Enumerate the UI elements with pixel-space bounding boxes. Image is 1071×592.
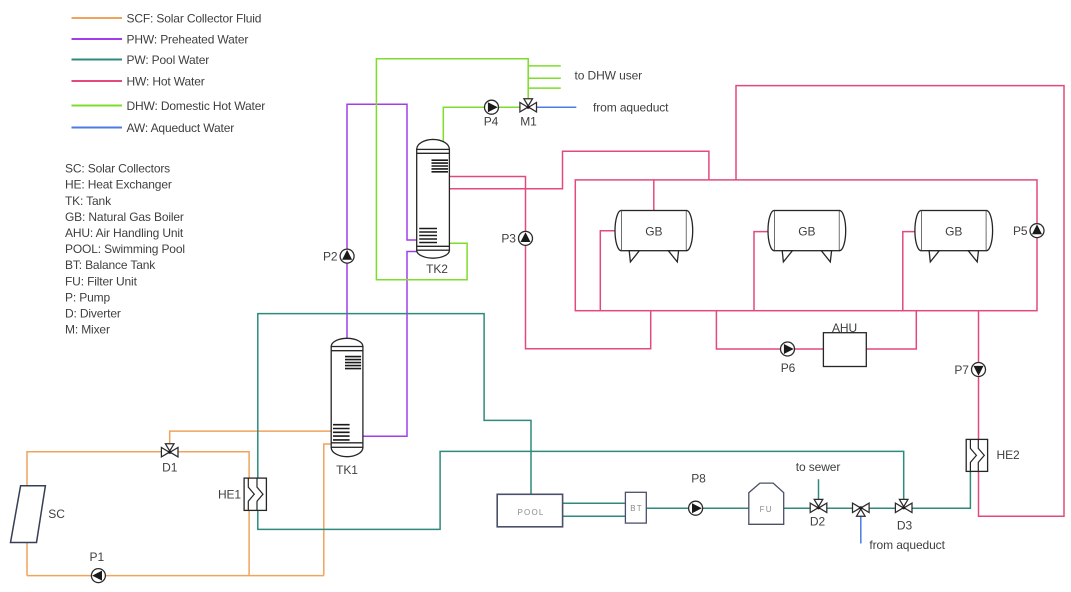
wire HW: GB3 left port drop (903, 232, 915, 311)
svg-text:SC: Solar Collectors: SC: Solar Collectors (65, 162, 170, 176)
svg-text:HE1: HE1 (218, 488, 241, 502)
svg-text:P7: P7 (954, 363, 969, 377)
pump P1 (90, 550, 106, 582)
diverter D3 (895, 499, 912, 532)
legend PHW line (72, 38, 123, 40)
svg-text:D1: D1 (162, 461, 178, 475)
svg-text:POOL: Swimming Pool: POOL: Swimming Pool (65, 242, 185, 256)
wire DHW: user stub 3 (528, 87, 561, 89)
svg-text:P8: P8 (691, 471, 706, 485)
check valve from aqueduct (853, 503, 870, 516)
wire HW: TK2 lower port up over to boiler supply header (449, 151, 709, 189)
wire PW: HE1 top up across down into POOL top (258, 314, 531, 495)
svg-text:AHU: AHU (832, 321, 857, 335)
svg-text:POOL: POOL (517, 508, 544, 517)
legend AW line (72, 127, 123, 129)
svg-text:P1: P1 (90, 550, 105, 564)
svg-text:TK: Tank: TK: Tank (65, 194, 112, 208)
svg-text:GB: GB (945, 224, 962, 238)
wire SCF: SC loop up through D1 to HE1 top (27, 452, 249, 576)
wire DHW: TK2 top port up and right to M1 through P4 (443, 107, 528, 142)
svg-text:SCF: Solar Collector Fluid: SCF: Solar Collector Fluid (127, 11, 262, 25)
pump P8 (689, 471, 707, 515)
wire PW: HE1 bottom right up along return run to D3 (258, 451, 904, 529)
svg-text:D3: D3 (897, 518, 913, 532)
legend SCF line (72, 17, 123, 19)
svg-text:GB: GB (645, 224, 662, 238)
svg-text:TK1: TK1 (336, 463, 358, 477)
wire DHW: user stub 1 (528, 65, 561, 67)
wire SCF: D1 top branch to TK1 coil in (170, 431, 332, 452)
svg-text:D2: D2 (810, 514, 826, 528)
wire AW: aqueduct stub into check valve bottom (860, 508, 862, 544)
svg-text:P4: P4 (484, 115, 499, 129)
diverter D2 (810, 499, 827, 528)
svg-text:P: Pump: P: Pump (65, 290, 110, 304)
wire SCF: HE1 bottom down to bottom run (248, 510, 250, 575)
pump P6 (781, 342, 796, 375)
boiler GB1 (615, 211, 693, 262)
balance tank BT (625, 492, 646, 523)
legend PW line (72, 59, 123, 61)
svg-text:from aqueduct: from aqueduct (869, 538, 945, 552)
svg-text:P6: P6 (781, 361, 796, 375)
mixer M1 (520, 99, 537, 129)
legend HW line (72, 80, 123, 82)
svg-text:AHU: Air Handling Unit: AHU: Air Handling Unit (65, 226, 184, 240)
tank TK1 (331, 338, 363, 476)
svg-text:P5: P5 (1013, 224, 1028, 238)
abbreviation list (65, 162, 185, 337)
svg-text:BT: Balance Tank: BT: Balance Tank (65, 258, 156, 272)
svg-text:GB: GB (798, 224, 815, 238)
svg-text:to DHW user: to DHW user (575, 68, 643, 82)
filter unit FU (749, 483, 784, 524)
svg-text:SC: SC (48, 507, 65, 521)
pump P4 (484, 100, 499, 129)
wire PW: POOL to BT lower (563, 515, 626, 517)
wire HW: TK2 upper port through P3 to boiler return bus (449, 177, 650, 349)
svg-text:AW: Aqueduct Water: AW: Aqueduct Water (127, 121, 235, 135)
heat exchanger HE2 (966, 439, 1020, 471)
svg-text:TK2: TK2 (426, 262, 448, 276)
air handling unit AHU (823, 321, 866, 367)
wire PW: BT through P8 FU D2 D3 to HE2 riser (646, 471, 970, 508)
svg-text:from aqueduct: from aqueduct (593, 100, 669, 114)
wire PHW: TK2 coil out down to TK1 right port (363, 252, 417, 437)
tank TK2 (417, 139, 450, 276)
svg-text:P2: P2 (323, 249, 338, 263)
wire SCF: bottom run through P1 (27, 575, 324, 577)
swimming pool POOL (497, 494, 562, 527)
wire HW: AHU branch through P6 (716, 311, 916, 349)
svg-text:GB: Natural Gas Boiler: GB: Natural Gas Boiler (65, 210, 184, 224)
wire HW: GB1 top feed (653, 180, 655, 211)
solar collector SC (11, 486, 66, 543)
svg-text:P3: P3 (501, 232, 516, 246)
svg-text:PW: Pool Water: PW: Pool Water (127, 53, 210, 67)
svg-text:HE2: HE2 (997, 448, 1020, 462)
boiler GB3 (915, 211, 993, 262)
wire SCF: TK1 coil out to bottom run (324, 444, 331, 576)
legend DHW line (72, 105, 123, 107)
wire PW: to sewer stub above D2 (818, 479, 820, 503)
svg-text:DHW: Domestic Hot Water: DHW: Domestic Hot Water (127, 99, 266, 113)
boiler GB2 (768, 211, 846, 262)
pump P5 (1013, 224, 1044, 238)
svg-text:M1: M1 (520, 115, 537, 129)
wire HW: GB1 left port drop (600, 231, 615, 311)
svg-text:to sewer: to sewer (796, 460, 841, 474)
svg-text:HW: Hot Water: HW: Hot Water (127, 74, 205, 88)
svg-text:BT: BT (630, 504, 643, 513)
wire PHW: TK1 top up through P2 across and down into TK2 coil in (347, 104, 417, 341)
svg-text:D: Diverter: D: Diverter (65, 307, 121, 321)
svg-text:HE: Heat Exchanger: HE: Heat Exchanger (65, 178, 172, 192)
wire DHW: M1 up to bus and big loop to TK2 right port (376, 59, 528, 280)
wire HW: boiler enclosure rectangle (575, 180, 1037, 311)
pump P3 (501, 231, 532, 245)
pump P7 (954, 363, 985, 377)
svg-text:M: Mixer: M: Mixer (65, 323, 110, 337)
heat exchanger HE1 (218, 478, 266, 510)
svg-text:FU: Filter Unit: FU: Filter Unit (65, 274, 138, 288)
svg-text:FU: FU (760, 505, 773, 514)
wire DHW: user stub 2 (528, 77, 561, 79)
svg-text:PHW: Preheated Water: PHW: Preheated Water (127, 32, 249, 46)
wire HW: GB2 left port drop (754, 232, 769, 311)
wire PW: POOL to BT upper (563, 502, 626, 504)
wire HW: P7 drop through HE2 and outer return loop (736, 86, 1064, 517)
wire AW: aqueduct stub into M1 (528, 106, 576, 108)
diverter D1 (161, 444, 178, 475)
pump P2 (323, 249, 354, 263)
